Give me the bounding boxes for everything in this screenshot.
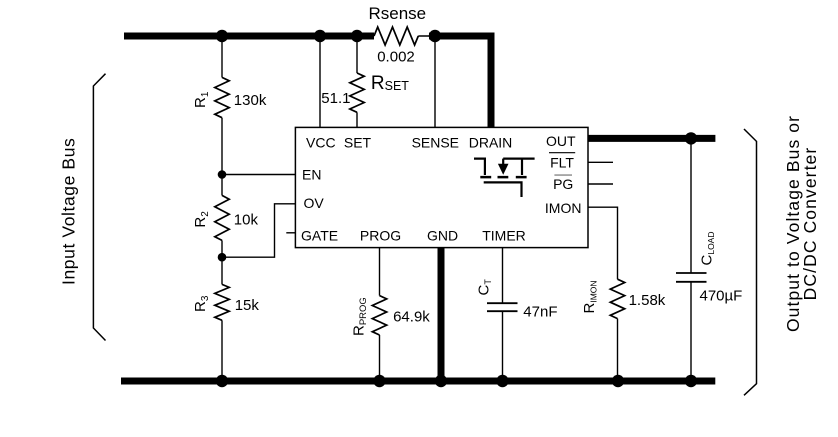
pin PG with overline xyxy=(553,175,573,192)
svg-text:OUT: OUT xyxy=(546,133,576,149)
svg-text:51.1: 51.1 xyxy=(321,90,350,107)
wire SET pin upper xyxy=(356,36,358,73)
wire CLOAD top xyxy=(690,138,692,273)
svg-text:47nF: 47nF xyxy=(523,304,557,321)
wire Rsense right to SENSE node xyxy=(418,35,435,37)
wire OV pin xyxy=(222,204,295,257)
wire CT bottom xyxy=(502,311,504,377)
svg-text:VCC: VCC xyxy=(306,135,336,151)
capacitor CT xyxy=(475,279,557,321)
svg-text:64.9k: 64.9k xyxy=(393,309,430,326)
node output bus label xyxy=(783,115,820,332)
svg-text:GND: GND xyxy=(427,228,458,244)
node bottom bus GND junction xyxy=(435,375,447,387)
wire SET pin lower xyxy=(356,112,358,127)
wire top bus right segment to DRAIN drop xyxy=(429,36,491,127)
pin FLT with overline xyxy=(549,153,575,171)
node bottom bus CLOAD junction xyxy=(685,375,697,387)
wire R3 bottom xyxy=(221,320,223,377)
node top bus SENSE junction xyxy=(429,30,441,42)
wire GATE stub xyxy=(286,232,295,234)
svg-text:GATE: GATE xyxy=(301,228,338,244)
resistor RSET xyxy=(321,73,409,112)
resistor R3 xyxy=(192,284,259,320)
wire bottom ground bus xyxy=(121,378,715,385)
node top bus R1 junction xyxy=(216,30,228,42)
wire R2 bottom to R3 top xyxy=(221,240,223,284)
node top bus SET junction xyxy=(351,30,363,42)
svg-text:PG: PG xyxy=(553,176,573,192)
svg-text:IMON: IMON xyxy=(545,200,582,216)
wire R1 bottom to R2 top xyxy=(221,118,223,196)
wire GND pin thick xyxy=(438,248,445,381)
svg-text:470µF: 470µF xyxy=(700,288,743,305)
wire TIMER to CT xyxy=(502,248,504,303)
resistor R1 xyxy=(192,77,267,117)
resistor RIMON xyxy=(581,279,666,318)
svg-text:DC/DC Converter: DC/DC Converter xyxy=(800,147,820,301)
svg-text:0.002: 0.002 xyxy=(377,49,415,66)
node bottom bus R3 junction xyxy=(216,375,228,387)
wire R1 top xyxy=(221,36,223,77)
svg-text:DRAIN: DRAIN xyxy=(469,135,513,151)
svg-text:TIMER: TIMER xyxy=(482,228,526,244)
wire PROG top xyxy=(379,248,381,296)
node top bus VCC junction xyxy=(314,30,326,42)
svg-text:PROG: PROG xyxy=(360,228,401,244)
node output bus CLOAD junction xyxy=(685,132,697,144)
transistor Q1 internal MOSFET xyxy=(474,159,535,197)
wire FLT stub xyxy=(588,161,613,163)
wire SENSE pin xyxy=(434,36,436,127)
svg-text:130k: 130k xyxy=(234,92,267,109)
node output bus bracket xyxy=(744,129,757,395)
op-amp U1 hot swap controller box xyxy=(295,127,588,247)
wire CLOAD bottom xyxy=(690,282,692,378)
svg-text:SET: SET xyxy=(344,135,372,151)
node EN junction xyxy=(218,170,227,179)
resistor R2 xyxy=(192,195,258,240)
resistor RPROG xyxy=(351,296,431,336)
wire EN pin xyxy=(222,174,295,176)
node input bus bracket xyxy=(93,74,105,341)
svg-text:EN: EN xyxy=(302,167,321,183)
node bottom bus PROG junction xyxy=(373,375,385,387)
node bottom bus RIMON junction xyxy=(612,375,624,387)
svg-text:1.58k: 1.58k xyxy=(629,292,666,309)
svg-text:FLT: FLT xyxy=(550,154,574,170)
svg-text:OV: OV xyxy=(304,195,325,211)
wire PG stub xyxy=(588,183,613,185)
node OV junction xyxy=(218,253,227,262)
wire VCC pin xyxy=(319,36,321,127)
wire output bus xyxy=(588,135,715,142)
svg-text:SENSE: SENSE xyxy=(412,135,459,151)
svg-text:10k: 10k xyxy=(234,211,259,228)
svg-text:Rsense: Rsense xyxy=(368,4,426,23)
wire IMON to RIMON xyxy=(588,207,618,279)
capacitor CLOAD xyxy=(676,232,742,305)
node bottom bus TIMER junction xyxy=(496,375,508,387)
svg-text:Input Voltage Bus: Input Voltage Bus xyxy=(59,138,79,285)
wire PROG bottom xyxy=(379,335,381,378)
resistor Rsense xyxy=(368,4,426,66)
wire RIMON bottom xyxy=(617,319,619,378)
svg-text:15k: 15k xyxy=(235,297,260,314)
wire top input bus xyxy=(124,33,374,40)
